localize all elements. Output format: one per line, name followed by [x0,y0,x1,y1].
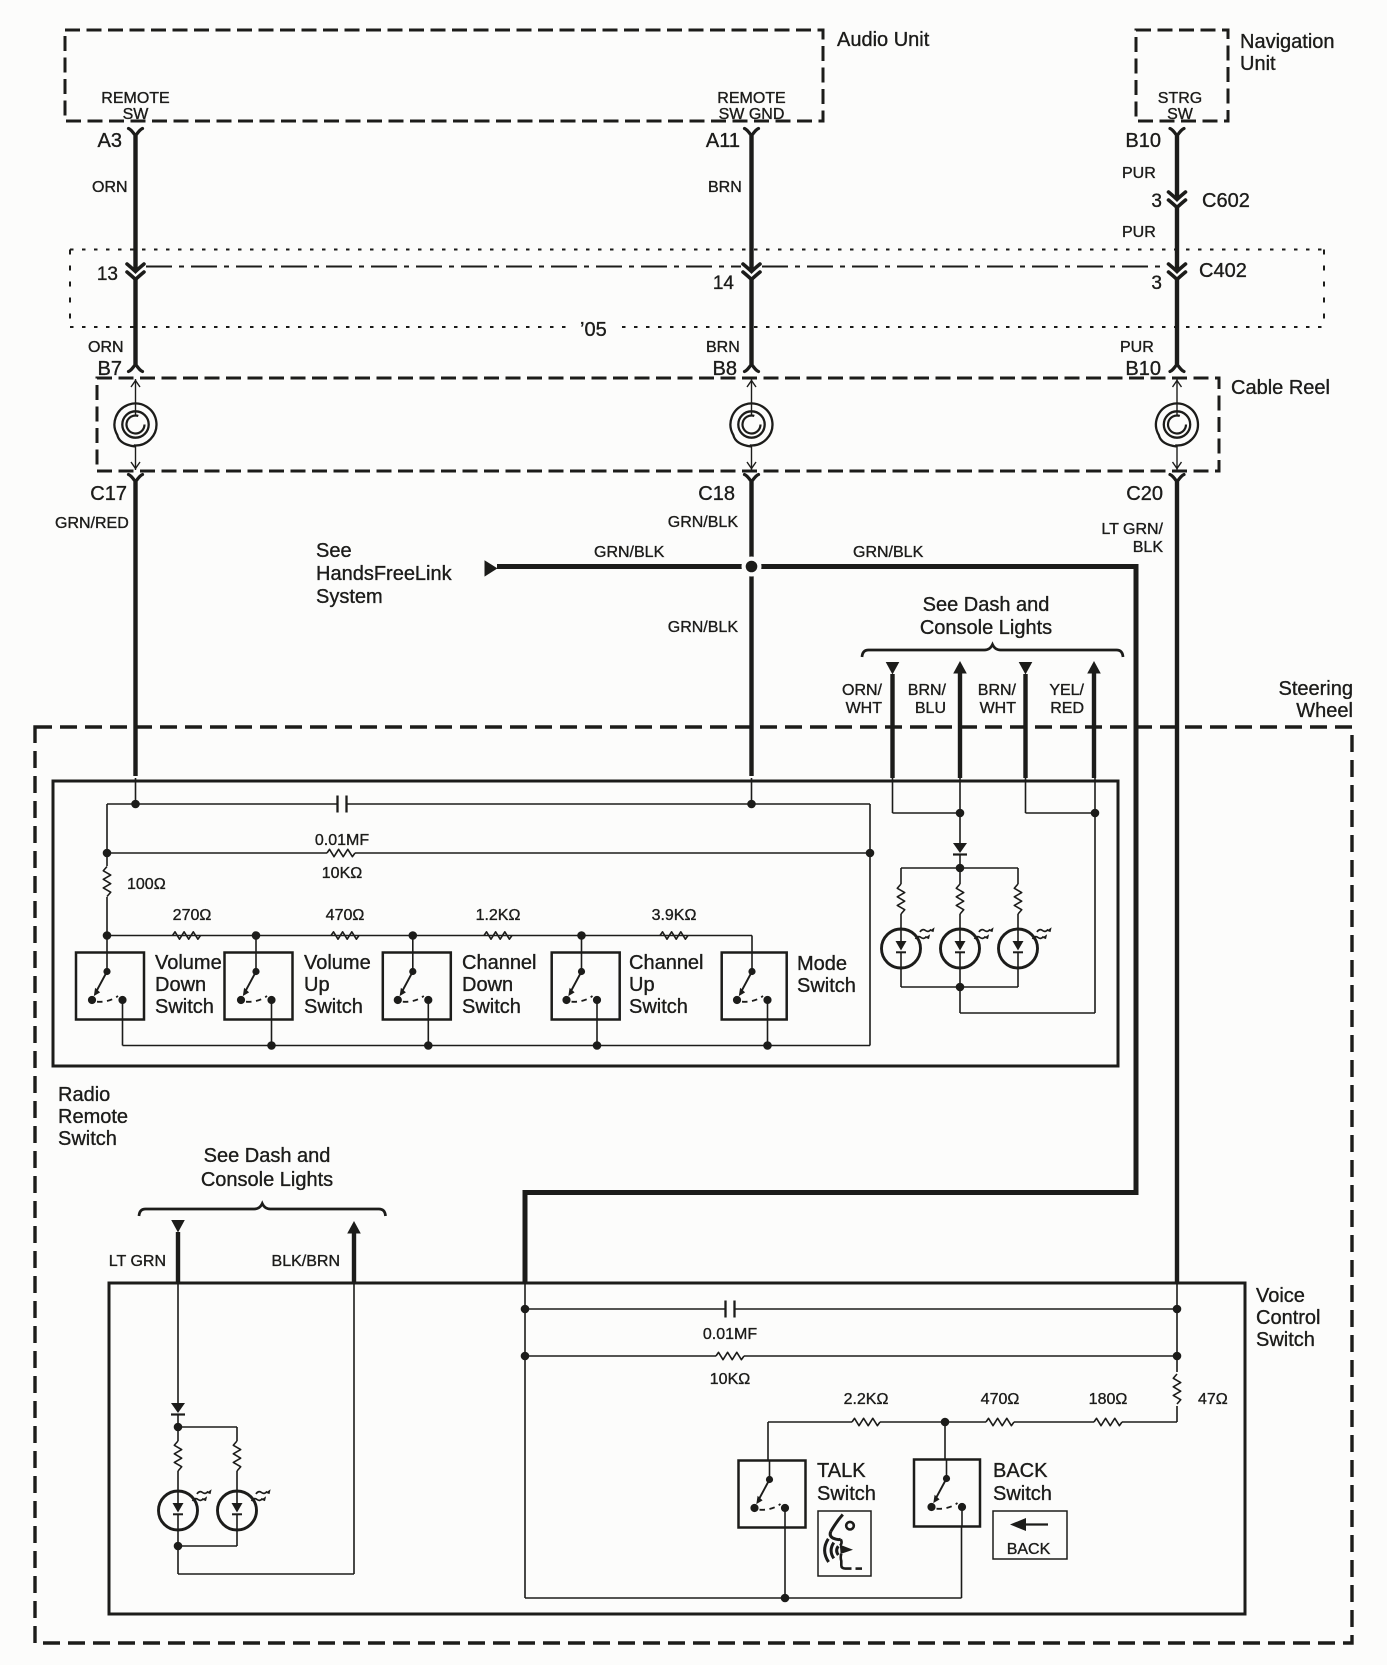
svg-text:Voice: Voice [1256,1285,1305,1307]
svg-text:Wheel: Wheel [1296,700,1353,722]
resistor lamp 5 [233,1441,240,1471]
svg-text:SW: SW [1167,106,1194,123]
svg-text:GRN/RED: GRN/RED [55,515,129,532]
navigation unit label [1240,31,1335,75]
wire lamp branch 2 upper [959,868,961,884]
pin B10 lower connector fork [1170,364,1184,372]
wire lamp branch 1 bottom [900,968,902,987]
svg-text:BRN/: BRN/ [908,682,947,699]
svg-text:GRN/BLK: GRN/BLK [594,544,665,561]
resistor lamp 4 [174,1441,181,1471]
svg-text:BLU: BLU [915,700,946,717]
diode D1 [953,843,967,855]
node chain volume up [252,931,261,940]
steering wheel label [1279,678,1354,722]
dash lights arrow YEL/RED [1087,661,1101,778]
svg-text:GRN/BLK: GRN/BLK [668,514,739,531]
wire label PUR 3 [1120,339,1154,356]
wire C20 inside [1176,1283,1178,1372]
wire diode to branch [177,1415,179,1427]
dash lights arrow LT GRN [171,1220,185,1283]
wire label GRN/BLK upper [668,514,739,531]
junction node C18/handsfreelink [742,557,762,577]
illumination lamp 1 [882,927,935,968]
svg-text:Console Lights: Console Lights [201,1169,333,1191]
pin C18 label [698,483,735,505]
wire voice ground bus [525,1597,962,1599]
wire voice chain line [768,1422,1177,1461]
resistor 470 ohm label [326,907,365,924]
wire label BRN/WHT [978,682,1017,717]
pin B10 lower label [1125,358,1161,380]
wire GRN/BLK junction down to radio remote switch [749,567,753,777]
svg-text:Up: Up [304,974,330,996]
capacitor C1 label [315,832,369,849]
svg-text:GRN/BLK: GRN/BLK [853,544,924,561]
connector C402 pin 13 symbol [127,264,144,280]
svg-text:PUR: PUR [1120,339,1154,356]
wire label ORN [92,179,128,196]
svg-text:Audio Unit: Audio Unit [837,29,930,51]
pin C20 connector fork [1170,475,1184,483]
wire lamp branch 1 upper [900,868,902,884]
volume up switch label [304,952,371,1018]
node chain volume down [103,931,112,940]
svg-text:14: 14 [713,273,735,294]
svg-text:WHT: WHT [846,700,883,717]
svg-text:BRN: BRN [708,179,742,196]
node lamp return lower [174,1542,183,1551]
pin B10 connector fork [1170,129,1184,137]
wire ORN C402 to B7 [133,280,137,365]
resistor 100 ohm label [127,876,166,893]
pin B8 connector fork [745,364,759,372]
radio remote switch label [58,1084,128,1150]
resistor 10K ohm [327,849,355,856]
svg-text:Switch: Switch [1256,1329,1315,1351]
svg-text:A3: A3 [98,130,122,152]
node lamp branch left [174,1423,183,1432]
svg-text:BACK: BACK [993,1460,1048,1482]
svg-text:Cable Reel: Cable Reel [1231,377,1330,399]
capacitor C2 0.01MF [726,1301,735,1318]
resistor 2.2K ohm label [844,1391,889,1408]
wire voice cap line [525,1283,1177,1309]
capacitor C2 label [703,1326,757,1343]
cable reel coil 2 [730,403,772,446]
node voice 10K left [521,1352,530,1361]
node illumination feed [956,809,965,818]
audio unit pin label REMOTE SW GND [717,90,785,123]
pin C18 connector fork [745,475,759,483]
svg-text:C18: C18 [698,483,735,505]
wire resistor chain line [107,936,752,953]
wire lamp4 upper [177,1427,179,1441]
wire label GRN/RED [55,515,129,532]
wire label PUR [1122,165,1156,182]
wire label PUR 2 [1122,224,1156,241]
wire lamp branch 2 bottom [959,968,961,987]
back switch SW7 [914,1460,980,1527]
back switch label [993,1460,1052,1505]
node C18 wire to cap line [747,778,756,808]
wire lamp4 bottom [177,1530,179,1546]
cable reel coil 2 link line [747,379,756,470]
audio unit pin label REMOTE SW [101,90,169,123]
resistor 2.2K ohm [852,1418,880,1425]
talk switch icon [825,1515,862,1569]
svg-text:Remote: Remote [58,1106,128,1128]
svg-text:Switch: Switch [817,1483,876,1505]
talk switch label [817,1460,876,1505]
pin A11 label [706,130,740,152]
svg-text:Control: Control [1256,1307,1320,1329]
wire right loop vertical [869,804,871,1046]
wire lamp branch 3 upper [1017,868,1019,884]
node lamp return [956,983,965,992]
svg-text:Channel: Channel [629,952,704,974]
node C17 wire to cap line [131,778,140,808]
pin B10 label [1125,130,1161,152]
svg-text:WHT: WHT [980,700,1017,717]
svg-text:Unit: Unit [1240,53,1276,75]
wire label BRN [708,179,742,196]
mode switch SW5 [722,953,787,1020]
resistor 470 ohm voice label [981,1391,1020,1408]
audio unit label [837,29,930,51]
wire stub channel up [581,936,583,953]
node bus channel down [424,1041,433,1050]
wire GRN/BLK horizontal to handsfreelink and down to voice control [497,567,1136,1284]
connector C402 pin 3 symbol [1169,264,1186,280]
connector C602 symbol [1169,192,1186,208]
wire lamp return lower [178,1283,354,1574]
wire mode to bus [767,1020,769,1046]
svg-text:Navigation: Navigation [1240,31,1335,53]
svg-text:Switch: Switch [155,996,214,1018]
connector C402 dash-dot line [146,266,1163,268]
channel up switch SW4 [552,953,620,1020]
brace upper [862,645,1123,658]
wire BRN/BLU inside [959,778,961,843]
svg-text:C20: C20 [1126,483,1163,505]
svg-text:Volume: Volume [155,952,222,974]
see dash and console lights label upper [920,594,1052,639]
connector C402 pin 3 label [1151,273,1162,294]
svg-text:Switch: Switch [629,996,688,1018]
wire 10K ohm line [107,852,870,854]
wire lamp return [960,778,1095,1013]
wire back bottom [961,1528,963,1599]
resistor 10K ohm label [322,865,362,882]
pin A3 label [98,130,122,152]
wire capacitor line [107,804,870,853]
capacitor C1 0.01MF [338,796,347,813]
navigation unit pin label STRG SW [1158,90,1202,123]
resistor 3.9K ohm [660,932,688,939]
resistor 3.9K ohm label [652,907,697,924]
resistor lamp 2 [956,884,963,914]
svg-text:Console Lights: Console Lights [920,617,1052,639]
pin 13 label [97,264,118,285]
svg-text:Down: Down [462,974,513,996]
illumination lamp 2 [941,927,994,968]
navigation unit box [1136,30,1228,121]
wire lamp4 mid [177,1471,179,1491]
wire LT GRN/BLK C20 down to voice control switch [1175,482,1179,1283]
svg-text:BLK: BLK [1133,539,1164,556]
node left cap/10K [103,849,112,858]
svg-text:Down: Down [155,974,206,996]
wire lamp branch 1 lower [900,914,902,929]
node talk ground [781,1594,790,1603]
wire switch ground bus [123,1045,871,1047]
svg-text:180Ω: 180Ω [1089,1391,1128,1408]
diode D2 [171,1403,185,1415]
handsfreelink arrow [485,560,498,576]
pin C17 connector fork [129,475,143,483]
svg-text:System: System [316,586,383,608]
wire diode to lamp bus [959,855,961,868]
wire label ORN/WHT [842,682,883,717]
wire stub channel down [412,936,414,953]
talk switch SW6 [739,1461,806,1528]
node voice cap right [1173,1305,1182,1314]
back switch icon box [993,1511,1067,1559]
illumination lamp 4 [159,1489,212,1530]
svg-text:YEL/: YEL/ [1049,682,1084,699]
wire voice 10K line [525,1309,1177,1356]
back switch icon label [1007,1541,1051,1558]
node right 10K [866,849,875,858]
pin B8 label [713,358,737,380]
svg-text:C402: C402 [1199,260,1247,282]
wire lamp bottom bus [901,986,1018,988]
svg-text:ORN/: ORN/ [842,682,883,699]
node voice cap left [521,1305,530,1314]
svg-text:470Ω: 470Ω [326,907,365,924]
see handsfreelink system label [316,540,453,608]
svg-text:10KΩ: 10KΩ [322,865,362,882]
wire lamp5 bottom [236,1530,238,1546]
svg-text:HandsFreeLink: HandsFreeLink [316,563,453,585]
svg-text:SW GND: SW GND [719,106,785,123]
svg-text:ORN: ORN [92,179,128,196]
node lamp return top [1091,809,1100,818]
svg-text:47Ω: 47Ω [1198,1391,1228,1408]
node voice 10K right [1173,1352,1182,1361]
wire lamp bottom bus lower [178,1545,237,1547]
wire LT GRN inside [177,1283,179,1403]
node chain channel down [409,931,418,940]
channel up switch label [629,952,704,1018]
resistor 10K ohm voice [716,1352,744,1359]
wire label GRN/BLK left [594,544,665,561]
svg-text:Switch: Switch [797,975,856,997]
svg-text:10KΩ: 10KΩ [710,1371,750,1388]
wire lamp top bus lower [178,1426,237,1428]
wire channel down to bus [427,1020,429,1046]
voice control switch label [1256,1285,1320,1351]
svg-text:BRN/: BRN/ [978,682,1017,699]
node chain channel up [577,931,586,940]
wire label LT GRN [109,1253,166,1270]
resistor 10K ohm voice label [710,1371,750,1388]
wire PUR B10 to C602 [1175,136,1179,200]
dash lights arrow BRN/WHT [1019,662,1033,778]
svg-text:Switch: Switch [58,1128,117,1150]
svg-text:SW: SW [123,106,150,123]
svg-text:PUR: PUR [1122,224,1156,241]
node bus volume up [267,1041,276,1050]
resistor 270 ohm [173,932,201,939]
steering wheel box [35,727,1352,1643]
wire label BRN 2 [706,339,740,356]
wire label YEL/RED [1049,682,1084,717]
svg-text:100Ω: 100Ω [127,876,166,893]
cable reel coil 3 link line [1173,379,1182,470]
talk switch icon box [818,1511,871,1576]
see dash and console lights label lower [201,1145,333,1191]
cable reel coil 1 [114,403,156,446]
brace lower [139,1204,386,1217]
wire BRN/WHT inside [1026,778,1096,813]
connector C402 pin 14 symbol [743,264,760,280]
svg-text:13: 13 [97,264,118,285]
svg-text:Steering: Steering [1279,678,1354,700]
svg-text:3: 3 [1151,191,1162,212]
resistor 470 ohm [331,932,359,939]
connector C602 label [1202,190,1250,212]
channel down switch label [462,952,537,1018]
wire 100 ohm branch [106,853,108,936]
svg-text:LT GRN: LT GRN [109,1253,166,1270]
node bus channel up [593,1041,602,1050]
wire lamp branch 3 lower [1017,914,1019,929]
volume down switch label [155,952,222,1018]
svg-text:Switch: Switch [304,996,363,1018]
dash lights arrow BLK/BRN [347,1221,361,1283]
channel down switch SW3 [383,953,451,1020]
svg-text:1.2KΩ: 1.2KΩ [476,907,521,924]
illumination lamp 5 [218,1489,271,1530]
voice control switch box [109,1283,1245,1614]
wire volume down to bus [122,1020,124,1046]
node bus mode [763,1041,772,1050]
pin C20 label [1126,483,1163,505]
resistor 1.2K ohm label [476,907,521,924]
svg-text:2.2KΩ: 2.2KΩ [844,1391,889,1408]
svg-text:BRN: BRN [706,339,740,356]
node lamp feed [956,864,965,873]
wire lamp branch 2 lower [959,914,961,929]
wire stub volume up [255,936,257,953]
resistor 180 ohm label [1089,1391,1128,1408]
wire label GRN/BLK right [853,544,924,561]
wire back switch stub [944,1422,946,1460]
svg-text:REMOTE: REMOTE [101,90,169,107]
cable reel coil 1 link line [131,379,140,470]
volume down switch SW1 [76,953,144,1020]
svg-text:B10: B10 [1125,130,1161,152]
cable reel label [1231,377,1330,399]
svg-text:Switch: Switch [993,1483,1052,1505]
wire GRN/RED C17 down to steering wheel [133,482,137,776]
pin A3 connector fork [129,129,143,137]
wire GRN/BLK C18 down to junction [749,482,753,567]
wire label BRN/BLU [908,682,947,717]
pin B7 connector fork [129,364,143,372]
svg-text:270Ω: 270Ω [173,907,212,924]
svg-text:TALK: TALK [817,1460,866,1482]
svg-text:A11: A11 [706,130,740,152]
wire lamp top bus [901,867,1018,869]
resistor 100 ohm [103,867,110,897]
dash lights arrow BRN/BLU [953,661,967,778]
resistor 470 ohm voice [986,1418,1014,1425]
svg-text:BACK: BACK [1007,1541,1051,1558]
svg-text:Mode: Mode [797,953,847,975]
wire BRN C402 to B8 [749,280,753,365]
pin B7 label [98,358,122,380]
wire label ORN 2 [88,339,124,356]
connector C402 dotted outline [70,250,1324,328]
svg-text:BLK/BRN: BLK/BRN [272,1253,340,1270]
svg-text:ORN: ORN [88,339,124,356]
resistor 270 ohm label [173,907,212,924]
wire lamp5 mid [236,1471,238,1491]
wire PUR C602 to C402 [1175,208,1179,272]
mode switch label [797,953,856,997]
svg-text:GRN/BLK: GRN/BLK [668,619,739,636]
connector C602 pin 3 label [1151,191,1162,212]
wire label GRN/BLK lower [668,619,739,636]
svg-text:C17: C17 [90,483,127,505]
connector C402 label [1199,260,1247,282]
svg-text:3: 3 [1151,273,1162,294]
cable reel coil 3 [1156,403,1198,446]
resistor 180 ohm [1094,1418,1122,1425]
svg-text:RED: RED [1050,700,1084,717]
resistor 1.2K ohm [484,932,512,939]
radio remote switch box [53,781,1118,1066]
svg-text:See: See [316,540,352,562]
wire ORN A3 to C402 [133,136,137,272]
svg-text:C602: C602 [1202,190,1250,212]
wire lamp5 upper [236,1427,238,1441]
back switch icon arrow [1010,1518,1048,1531]
svg-text:0.01MF: 0.01MF [315,832,369,849]
svg-text:Switch: Switch [462,996,521,1018]
wire lamp branch 3 bottom [1017,968,1019,987]
wire talk bottom [784,1528,786,1599]
svg-text:0.01MF: 0.01MF [703,1326,757,1343]
resistor 47 ohm [1173,1374,1180,1404]
svg-text:3.9KΩ: 3.9KΩ [652,907,697,924]
wire label LT GRN/BLK [1101,521,1163,556]
wire volume up to bus [271,1020,273,1046]
svg-text:Up: Up [629,974,655,996]
audio unit box [65,30,823,121]
svg-text:470Ω: 470Ω [981,1391,1020,1408]
wire stub volume down [106,936,108,953]
svg-text:PUR: PUR [1122,165,1156,182]
pin C17 label [90,483,127,505]
resistor 47 ohm label [1198,1391,1228,1408]
svg-text:STRG: STRG [1158,90,1202,107]
svg-text:See Dash and: See Dash and [204,1145,331,1167]
svg-text:Radio: Radio [58,1084,110,1106]
